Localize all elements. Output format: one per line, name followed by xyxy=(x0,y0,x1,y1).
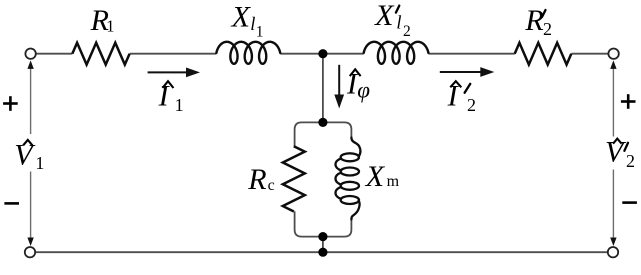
svg-text:2: 2 xyxy=(467,95,476,115)
svg-text:X: X xyxy=(365,160,386,193)
svg-text:l: l xyxy=(396,14,401,34)
svg-text:2: 2 xyxy=(543,19,552,39)
svg-text:1: 1 xyxy=(256,24,264,41)
svg-text:c: c xyxy=(268,177,275,194)
svg-text:1: 1 xyxy=(175,95,184,115)
svg-text:2: 2 xyxy=(626,151,635,171)
svg-text:l: l xyxy=(250,15,255,35)
svg-text:X: X xyxy=(231,1,252,34)
svg-text:2: 2 xyxy=(403,23,411,40)
svg-text:R: R xyxy=(247,163,266,196)
svg-text:1: 1 xyxy=(106,16,114,35)
svg-text:φ: φ xyxy=(357,77,370,102)
svg-text:R: R xyxy=(524,4,543,37)
svg-text:X: X xyxy=(374,0,395,32)
svg-text:m: m xyxy=(387,173,400,190)
svg-text:1: 1 xyxy=(35,153,44,173)
